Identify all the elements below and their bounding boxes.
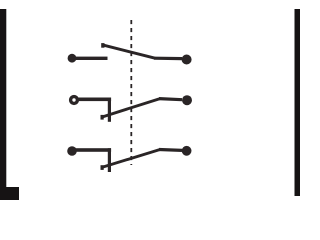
pole 2 right terminal: [182, 95, 192, 105]
pole 2 switch blade: [101, 99, 161, 120]
pole 3 switch blade: [101, 150, 161, 170]
pole 3 right wire: [159, 148, 182, 152]
pole 1 left wire: [73, 57, 108, 60]
pole 3 left terminal: [67, 146, 77, 156]
left edge bar: [0, 9, 6, 200]
bottom-left corner block: [0, 187, 19, 200]
pole 2 right wire: [159, 99, 182, 100]
pole 1 switch blade: [101, 43, 155, 58]
pole 3 stub wire: [108, 148, 111, 172]
pole 2 stub wire: [108, 98, 111, 122]
right edge bar: [295, 9, 301, 196]
pole 1 left terminal: [68, 54, 77, 63]
pole 1 right terminal: [182, 55, 192, 65]
pole 3 right terminal: [182, 146, 192, 156]
pole 1 right wire: [154, 57, 182, 61]
pole 2 left terminal (ring): [71, 97, 78, 104]
pole 2 left wire: [77, 98, 111, 102]
pole 3 left wire: [74, 148, 111, 152]
mechanical linkage dashed line: [130, 20, 132, 165]
